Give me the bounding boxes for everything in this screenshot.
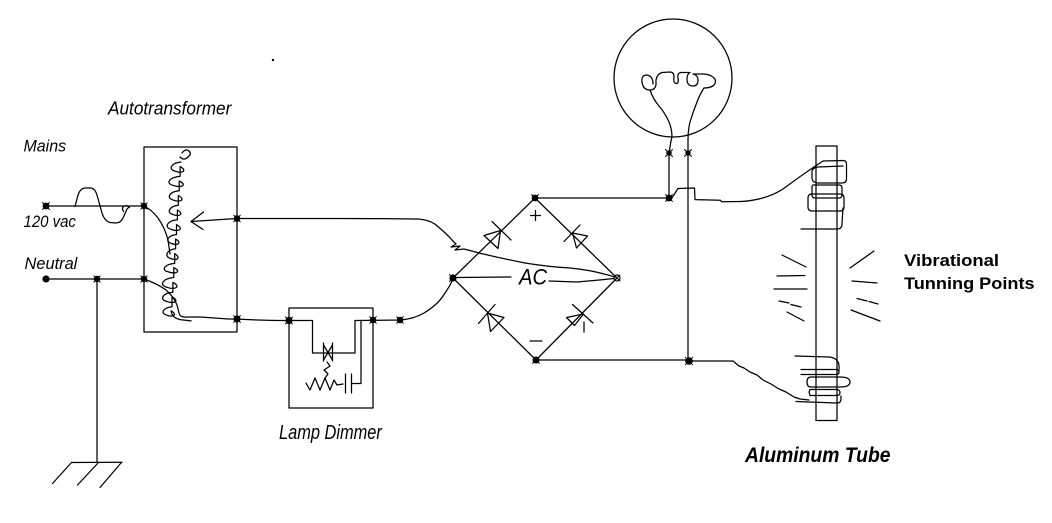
wire to tube bottom coil [689, 361, 809, 400]
wire mains to winding [144, 206, 170, 254]
node neutral ground junction [94, 276, 100, 282]
svg-text:AC: AC [517, 266, 548, 290]
tap arrow [191, 212, 237, 230]
AC leader left [457, 276, 511, 279]
node minus junction [685, 357, 693, 365]
plus label [531, 211, 541, 221]
node dimmer left [285, 317, 292, 324]
tube bottom coil [795, 356, 850, 403]
node plus junction [666, 195, 673, 202]
ac sine symbol [75, 188, 130, 223]
node neutral at box [141, 276, 147, 282]
diode D4 lower-right [567, 305, 594, 333]
vibration dashes left [774, 255, 807, 321]
autotransformer box [144, 147, 237, 332]
node bridge bottom [533, 357, 540, 364]
diode D1 upper-left [484, 222, 511, 249]
diode D3 lower-left [479, 305, 505, 332]
wire to tube top coil [741, 161, 823, 202]
ground [53, 462, 123, 487]
node lamp right [685, 150, 692, 157]
node box right bottom [234, 316, 241, 323]
wire diac to resistor [324, 362, 330, 378]
capacitor [346, 374, 352, 393]
node bridge right [614, 275, 620, 281]
wire lamp right lead down [687, 153, 689, 357]
diode D2 upper-right [564, 225, 588, 248]
node neutral left [42, 275, 49, 282]
wire bridge plus output [535, 197, 669, 199]
wire bottom to lamp dimmer [237, 319, 289, 321]
bridge rectifier diamond [453, 198, 617, 360]
lamp filament [642, 72, 716, 141]
tube top coil [801, 161, 847, 230]
svg-text:Tunning Points: Tunning Points [904, 274, 1035, 293]
lamp lead left [669, 141, 671, 153]
vibration dashes right [850, 251, 880, 321]
wire dimmer to bridge left vertex [355, 280, 453, 321]
svg-text:Vibrational: Vibrational [904, 251, 999, 270]
wire bridge minus output [536, 359, 689, 361]
lamp dimmer box [289, 308, 373, 408]
node lamp left [666, 150, 673, 157]
wire hop over lamp lead [669, 188, 741, 202]
node tap at box right [234, 215, 241, 222]
node after dimmer [397, 317, 404, 324]
node dimmer right [370, 317, 377, 324]
svg-text:120 vac: 120 vac [24, 213, 76, 231]
wire capacitor up [352, 321, 362, 384]
node bridge top [532, 195, 539, 202]
aluminum tube [816, 146, 837, 421]
node mains left [43, 203, 50, 210]
triac channel [313, 321, 356, 354]
svg-text:Neutral: Neutral [25, 254, 79, 273]
svg-text:Lamp Dimmer: Lamp Dimmer [279, 420, 383, 443]
stray ink speck [272, 59, 274, 61]
wire tap to bridge right vertex [237, 219, 615, 278]
wire mains [46, 205, 144, 207]
wire ground drop [96, 279, 98, 462]
svg-text:Aluminum Tube: Aluminum Tube [744, 444, 890, 467]
wire neutral [46, 278, 144, 280]
resistor [306, 378, 343, 390]
lamp bulb [614, 19, 732, 137]
node bridge left [449, 274, 456, 281]
minus label [530, 340, 542, 342]
svg-text:Mains: Mains [24, 137, 67, 156]
autotransformer winding [180, 150, 190, 159]
diac [324, 343, 333, 361]
wire lamp left lead down [668, 153, 670, 198]
svg-text:Autotransformer: Autotransformer [107, 98, 232, 119]
lamp lead right [687, 140, 689, 153]
node mains at box [141, 203, 147, 209]
wire neutral to winding bottom [144, 279, 237, 319]
AC leader right [549, 279, 614, 283]
wire through dimmer left [289, 320, 313, 322]
